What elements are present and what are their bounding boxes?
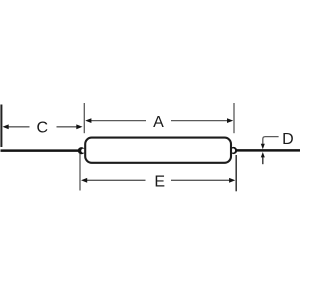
dimension A line (right segment): [171, 120, 229, 122]
dimension C arrowhead left: [3, 124, 9, 129]
dimension E arrowhead right: [229, 178, 235, 183]
svg-text:A: A: [153, 114, 164, 131]
dimension C line (right segment): [57, 126, 78, 128]
svg-text:C: C: [37, 119, 49, 136]
dimension D arrowhead up: [261, 152, 265, 157]
svg-text:D: D: [282, 131, 294, 148]
svg-text:E: E: [154, 174, 165, 191]
dimension A extension line (right, at body right edge): [233, 103, 235, 133]
wire: left lead: [1, 149, 80, 152]
dimension A line (left segment): [89, 120, 146, 122]
dimension D leader (top, bent with down arrow): [263, 137, 279, 146]
dimension D lower stem: [262, 157, 264, 164]
dimension C arrowhead right: [76, 124, 82, 129]
dimension E line (left segment): [85, 179, 146, 181]
left end seal flare: [78, 147, 85, 154]
resistor body: [85, 138, 231, 163]
dimension E line (right segment): [171, 179, 231, 181]
dimension E extension line (left, below left seal): [79, 154, 81, 191]
dimension E arrowhead left: [81, 178, 87, 183]
dimension C extension line (left image edge): [0, 105, 2, 148]
dimension A extension line (left, at body left edge): [83, 103, 85, 133]
dimension A arrowhead left: [85, 118, 91, 123]
right end seal flare: [230, 147, 237, 154]
dimension A arrowhead right: [227, 118, 233, 123]
wire: right lead: [236, 149, 300, 152]
dimension D arrowhead down: [261, 144, 265, 149]
dimension C line (left segment): [6, 126, 30, 128]
dimension E extension line (right, below right seal): [235, 155, 237, 191]
